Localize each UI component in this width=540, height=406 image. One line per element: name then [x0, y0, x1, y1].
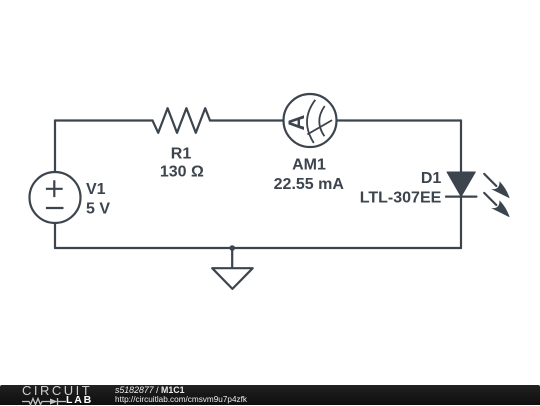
svg-text:5 V: 5 V — [86, 201, 110, 218]
logo LAB text — [66, 395, 93, 406]
voltage source V1 — [30, 172, 81, 223]
wire: right side down to LED anode — [460, 121, 462, 173]
footer bar — [0, 385, 540, 406]
wire: V1 plus terminal up to top-left corner — [54, 121, 56, 173]
wire bottom: right corner to V1 — [55, 247, 461, 249]
LED light arrow 1 — [484, 174, 510, 198]
logo schematic squiggle — [21, 397, 67, 406]
footer id text — [115, 386, 184, 395]
wire top: V1 to R1 — [55, 119, 153, 121]
wire: bottom to V1 minus terminal — [54, 223, 56, 248]
footer url text — [115, 395, 247, 404]
wire: junction to ground — [231, 248, 233, 268]
svg-text:22.55 mA: 22.55 mA — [274, 176, 345, 193]
wire: AM1 to top-right corner — [337, 119, 462, 121]
svg-text:D1: D1 — [421, 170, 442, 187]
svg-text:AM1: AM1 — [292, 157, 326, 174]
junction node — [229, 245, 235, 251]
CircuitLab logo wordmark — [22, 386, 92, 395]
ground — [212, 268, 253, 289]
svg-text:LTL-307EE: LTL-307EE — [360, 190, 442, 207]
LED D1 — [446, 172, 476, 197]
LED light arrow 2 — [484, 193, 510, 217]
wire: LED cathode down to bottom-right corner — [460, 197, 462, 248]
resistor R1 — [153, 108, 211, 133]
svg-text:A: A — [284, 115, 309, 131]
svg-text:R1: R1 — [171, 146, 192, 163]
ammeter AM1 — [284, 94, 337, 147]
svg-text:130 Ω: 130 Ω — [160, 164, 204, 181]
svg-text:V1: V1 — [86, 181, 106, 198]
wire: R1 to AM1 — [210, 119, 284, 121]
